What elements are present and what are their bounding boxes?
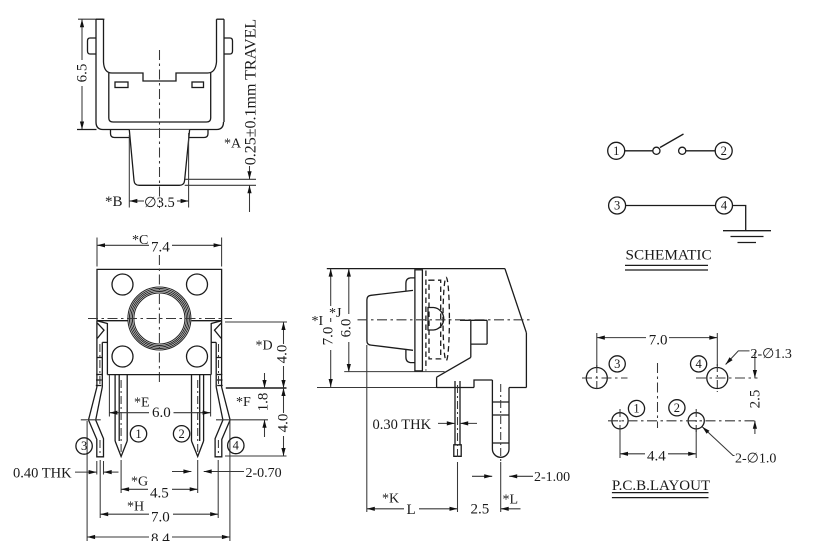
svg-text:2-∅1.0: 2-∅1.0 — [735, 451, 776, 466]
svg-text:6.5: 6.5 — [75, 64, 91, 83]
svg-text:2.5: 2.5 — [747, 390, 763, 409]
svg-text:6.0: 6.0 — [339, 319, 355, 338]
svg-text:*C: *C — [132, 233, 148, 248]
svg-text:4.0: 4.0 — [276, 414, 292, 433]
svg-text:1: 1 — [613, 144, 619, 158]
svg-text:1.8: 1.8 — [256, 393, 272, 412]
svg-text:4.4: 4.4 — [647, 449, 666, 465]
svg-text:0.30 THK: 0.30 THK — [373, 417, 432, 433]
svg-text:2: 2 — [178, 427, 184, 441]
svg-text:*G: *G — [131, 475, 148, 490]
svg-text:*B: *B — [105, 194, 123, 210]
svg-text:0.25±0.1mm TRAVEL: 0.25±0.1mm TRAVEL — [243, 19, 260, 165]
svg-text:*L: *L — [503, 493, 519, 508]
svg-text:2: 2 — [721, 144, 727, 158]
svg-text:*A: *A — [224, 137, 242, 152]
svg-text:∅3.5: ∅3.5 — [144, 195, 175, 211]
svg-text:SCHEMATIC: SCHEMATIC — [626, 247, 712, 264]
svg-text:2-1.00: 2-1.00 — [534, 470, 570, 485]
svg-text:4: 4 — [233, 439, 240, 453]
svg-text:7.0: 7.0 — [321, 327, 337, 346]
svg-text:1: 1 — [633, 402, 639, 416]
svg-text:1: 1 — [135, 427, 141, 441]
svg-text:7.4: 7.4 — [151, 240, 170, 256]
svg-text:L: L — [407, 502, 416, 518]
svg-text:4: 4 — [695, 357, 702, 371]
svg-text:7.0: 7.0 — [649, 333, 668, 349]
svg-text:*E: *E — [134, 396, 150, 411]
svg-text:*K: *K — [382, 492, 399, 507]
svg-text:3: 3 — [614, 199, 620, 213]
svg-text:3: 3 — [614, 357, 620, 371]
svg-text:4.0: 4.0 — [275, 345, 291, 364]
svg-text:2-0.70: 2-0.70 — [246, 466, 282, 481]
svg-text:*D: *D — [256, 339, 273, 354]
svg-text:2.5: 2.5 — [471, 502, 490, 518]
svg-text:8.4: 8.4 — [151, 531, 170, 541]
svg-text:6.0: 6.0 — [152, 405, 171, 421]
svg-text:7.0: 7.0 — [151, 510, 170, 526]
svg-text:3: 3 — [81, 439, 87, 453]
svg-text:*F: *F — [236, 395, 251, 410]
svg-text:2: 2 — [674, 401, 680, 415]
svg-text:*H: *H — [127, 500, 144, 515]
svg-text:P.C.B.LAYOUT: P.C.B.LAYOUT — [612, 478, 710, 494]
svg-text:4: 4 — [721, 199, 728, 213]
svg-text:2-∅1.3: 2-∅1.3 — [751, 347, 792, 362]
svg-text:0.40 THK: 0.40 THK — [13, 466, 72, 482]
svg-text:4.5: 4.5 — [150, 486, 169, 502]
